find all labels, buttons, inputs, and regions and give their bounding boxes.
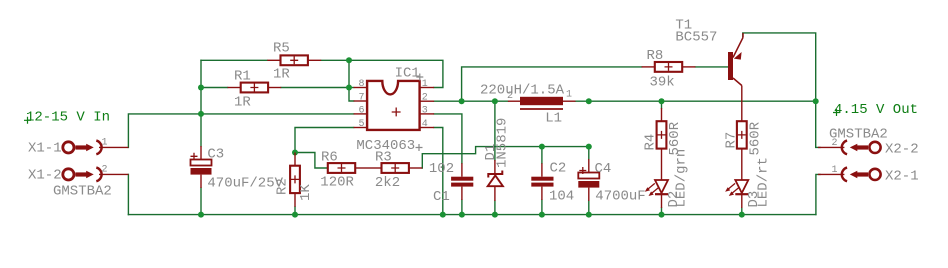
capacitor C2 xyxy=(531,163,553,200)
wire bottom ground rail xyxy=(128,214,816,216)
node input/pin6 junction xyxy=(198,111,204,117)
wire X2-1 drop to rail xyxy=(816,174,820,214)
svg-text:GMSTBA2: GMSTBA2 xyxy=(53,184,112,200)
svg-text:4700uF: 4700uF xyxy=(595,189,645,205)
wire C2 top xyxy=(541,147,543,164)
capacitor C1 xyxy=(451,163,473,200)
svg-text:2: 2 xyxy=(102,165,108,176)
svg-text:X1-1: X1-1 xyxy=(28,141,62,157)
wire pin3 to C1 xyxy=(434,114,462,163)
svg-text:1: 1 xyxy=(102,138,108,149)
node pin5 divider junction xyxy=(292,150,298,156)
resistor R1 xyxy=(228,83,282,93)
wire R8 right to T1 base xyxy=(695,66,728,68)
wire pin8 stub link xyxy=(349,87,354,89)
node gnd D2 xyxy=(659,212,665,218)
wire switch node up to R8 xyxy=(462,67,642,101)
svg-text:7: 7 xyxy=(358,92,364,103)
node gnd D3 xyxy=(739,212,745,218)
node R5 right junction xyxy=(346,57,352,63)
wire D1 top xyxy=(494,101,496,160)
net label origin cross xyxy=(833,109,840,116)
wire to R1 left xyxy=(201,87,228,89)
node gnd C2 xyxy=(539,212,545,218)
connector X2-1 xyxy=(818,168,881,182)
svg-text:2k2: 2k2 xyxy=(375,175,400,191)
svg-text:R1: R1 xyxy=(234,69,251,85)
svg-text:104: 104 xyxy=(549,189,574,205)
inductor L1 xyxy=(508,97,576,109)
wire R3 right feedback jog xyxy=(422,147,589,168)
node C4 top junction xyxy=(586,98,592,104)
svg-text:120R: 120R xyxy=(320,175,354,191)
node switch riser junction xyxy=(459,98,465,104)
resistor R3 xyxy=(369,163,423,173)
svg-text:2: 2 xyxy=(422,93,428,104)
node C2 feedback junction xyxy=(539,144,545,150)
svg-text:1: 1 xyxy=(832,165,838,176)
wire input vertical at x=201 xyxy=(200,60,202,114)
svg-text:1R: 1R xyxy=(234,95,251,111)
svg-text:LED/rt: LED/rt xyxy=(756,157,772,207)
svg-text:6: 6 xyxy=(358,105,364,116)
wire input net X1-1 riser xyxy=(128,114,353,147)
capacitor C3 polarized xyxy=(191,146,212,188)
svg-text:BC557: BC557 xyxy=(675,30,717,46)
svg-text:102: 102 xyxy=(429,161,454,177)
node gnd R2 xyxy=(292,212,298,218)
svg-text:1: 1 xyxy=(422,79,428,90)
wire C3 top xyxy=(200,114,202,146)
svg-text:C3: C3 xyxy=(207,147,224,163)
wire C2 bottom xyxy=(541,200,543,215)
svg-text:C2: C2 xyxy=(550,161,567,177)
svg-text:3: 3 xyxy=(422,105,428,116)
node gnd C3 xyxy=(198,212,204,218)
wire L1 right to X2 node xyxy=(576,100,816,102)
svg-text:MC34063: MC34063 xyxy=(356,138,415,154)
svg-text:1R: 1R xyxy=(273,67,290,83)
wire C3 bottom xyxy=(200,188,202,215)
wire R1 right to node xyxy=(281,87,349,89)
wire X2-2 drop xyxy=(816,101,820,147)
svg-text:1K: 1K xyxy=(298,184,314,201)
wire C4 top xyxy=(588,147,590,159)
svg-text:560R: 560R xyxy=(748,121,764,155)
svg-text:2: 2 xyxy=(832,138,838,149)
svg-text:1: 1 xyxy=(566,90,572,101)
svg-text:R6: R6 xyxy=(321,150,338,166)
svg-text:R5: R5 xyxy=(273,41,290,57)
wire R4 top xyxy=(661,101,663,108)
transistor Q1 T1 BC557 xyxy=(728,33,743,121)
node R4 junction xyxy=(659,98,665,104)
resistor R2 xyxy=(290,153,300,207)
svg-text:L1: L1 xyxy=(545,111,562,127)
svg-text:39k: 39k xyxy=(650,75,675,91)
wire T1 emitter top run xyxy=(743,33,816,101)
svg-text:C1: C1 xyxy=(433,189,450,205)
wire D3 bottom xyxy=(741,208,743,215)
node gnd D1 xyxy=(492,212,498,218)
connector X2-2 xyxy=(818,141,881,155)
MC34063 origin cross xyxy=(416,144,423,151)
wire pin1 loop xyxy=(349,60,443,87)
wire C4 bottom xyxy=(588,201,590,215)
node gnd C1 xyxy=(459,212,465,218)
LED D3 xyxy=(725,149,748,208)
op-amp U1 body (IC1 MC34063) xyxy=(354,81,435,130)
wire D1 bottom xyxy=(494,201,496,215)
node X2 output junction xyxy=(813,98,819,104)
svg-text:470uF/25V: 470uF/25V xyxy=(207,176,283,192)
svg-text:GMSTBA2: GMSTBA2 xyxy=(829,127,888,143)
svg-text:8: 8 xyxy=(358,79,364,90)
net label origin cross xyxy=(24,117,31,124)
wire node vertical pins 8-7 xyxy=(349,60,354,101)
resistor R6 xyxy=(328,163,369,173)
svg-text:LED/grn: LED/grn xyxy=(674,149,690,208)
wire to R5 left xyxy=(201,59,267,61)
node R5/R1/pin8 junction xyxy=(346,85,352,91)
svg-text:R4: R4 xyxy=(643,134,659,151)
resistor R5 xyxy=(267,55,321,65)
svg-text:1N5819: 1N5819 xyxy=(495,118,511,168)
svg-text:4: 4 xyxy=(422,119,428,130)
svg-text:12-15 V In: 12-15 V In xyxy=(26,110,110,126)
node feedback/C4 junction xyxy=(586,144,592,150)
wire pin2 to L1 xyxy=(434,100,508,102)
wire X1-2 drop xyxy=(127,174,129,214)
wire pin4 ground drop xyxy=(434,128,443,215)
wire R5 right to node xyxy=(321,59,349,61)
wire D2 bottom xyxy=(661,208,663,215)
node gnd C4 xyxy=(586,212,592,218)
svg-text:IC1: IC1 xyxy=(395,66,420,82)
svg-text:4.15 V Out: 4.15 V Out xyxy=(834,102,918,118)
node R1 row junction xyxy=(198,85,204,91)
IC1 pin stubs left xyxy=(354,87,368,89)
resistor R8 xyxy=(642,62,696,72)
resistor R7 xyxy=(737,121,747,148)
resistor R4 xyxy=(657,108,667,149)
svg-text:X2-2: X2-2 xyxy=(885,142,919,158)
node D1 junction xyxy=(492,98,498,104)
IC1 origin cross xyxy=(416,74,423,81)
diode D1 schottky xyxy=(488,160,503,201)
svg-text:R7: R7 xyxy=(724,132,740,149)
LED D2 xyxy=(645,149,668,208)
connector X1-1 xyxy=(63,141,129,155)
svg-text:R8: R8 xyxy=(647,48,664,64)
wire R2 bottom xyxy=(294,207,296,215)
node gnd pin4 xyxy=(440,212,446,218)
svg-text:5: 5 xyxy=(358,119,364,130)
svg-text:X1-2: X1-2 xyxy=(28,168,62,184)
svg-text:2: 2 xyxy=(507,91,513,102)
IC1 pin stubs right xyxy=(420,87,435,89)
svg-text:C4: C4 xyxy=(595,161,612,177)
wire C1 bottom xyxy=(461,200,463,215)
svg-text:X2-1: X2-1 xyxy=(885,169,919,185)
wire node to R6 jog xyxy=(295,153,328,169)
capacitor C4 polarized xyxy=(578,159,599,201)
connector X1-2 xyxy=(63,168,129,182)
wire pin5 feedback xyxy=(295,128,354,153)
svg-text:220uH/1.5A: 220uH/1.5A xyxy=(480,83,565,99)
